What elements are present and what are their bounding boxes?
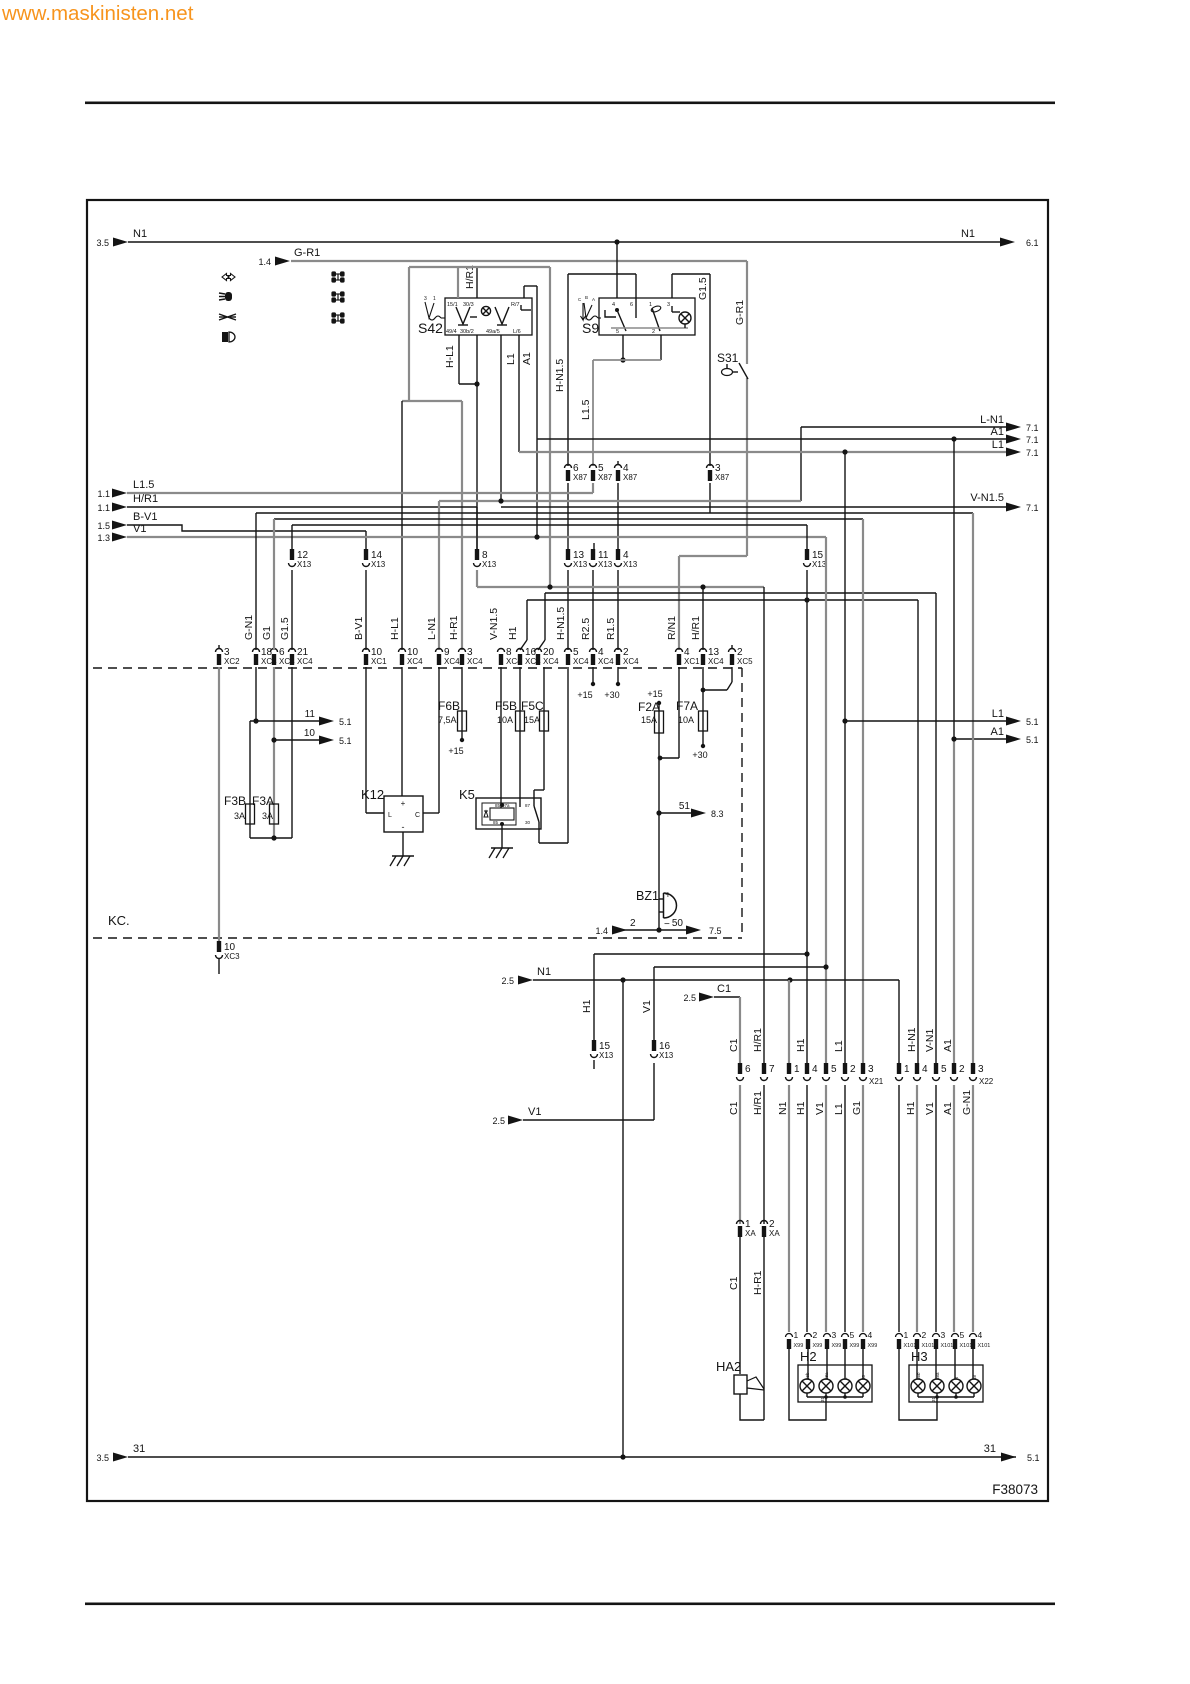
lamp cluster H2 box <box>798 1365 872 1402</box>
wire K12 right to XC4-9 <box>423 812 439 814</box>
svg-text:A1: A1 <box>942 1039 954 1052</box>
connector X22 pin 4 <box>915 1063 919 1074</box>
wire H1 lower <box>594 953 807 955</box>
wire B-V1 down to X13-14 <box>365 531 367 549</box>
svg-text:5: 5 <box>616 329 619 335</box>
wire X22-5 to X101-3 <box>935 1085 937 1332</box>
svg-text:85: 85 <box>495 803 501 808</box>
connector X101 pins <box>896 1334 903 1337</box>
svg-text:L-N1: L-N1 <box>426 617 438 640</box>
connector XC1 pin 4 <box>676 649 683 653</box>
svg-text:X87: X87 <box>623 473 638 482</box>
svg-text:7.1: 7.1 <box>1026 435 1039 445</box>
junction S42 branch <box>474 381 479 386</box>
svg-text:N1: N1 <box>777 1101 789 1115</box>
switch S31 symbol <box>722 369 733 376</box>
svg-text:XA: XA <box>769 1229 780 1238</box>
svg-text:3A: 3A <box>262 811 273 821</box>
connector XC3 pin 10 <box>217 941 221 952</box>
svg-text:L1.5: L1.5 <box>133 479 154 491</box>
svg-text:5.1: 5.1 <box>339 736 352 746</box>
wire L-N1 branch horizontal <box>439 500 801 502</box>
svg-text:2.5: 2.5 <box>492 1116 505 1126</box>
switch S9 contacts <box>605 310 616 317</box>
wire C1 to HA2 <box>739 1237 741 1374</box>
svg-text:H3: H3 <box>911 1349 928 1364</box>
svg-text:X87: X87 <box>715 473 730 482</box>
svg-text:2.5: 2.5 <box>683 993 696 1003</box>
svg-text:X13: X13 <box>371 560 386 569</box>
svg-text:−: − <box>664 919 670 930</box>
wire X22-3 to X101-4 <box>972 1085 974 1332</box>
svg-text:C1: C1 <box>717 983 731 995</box>
wire X87-4 lower column R1.5 <box>617 483 619 549</box>
connector X13 pin 4 <box>616 549 620 560</box>
svg-text:4: 4 <box>922 1064 928 1075</box>
bottom rule <box>85 1603 1055 1606</box>
svg-text:X101: X101 <box>941 1343 954 1349</box>
connector X21 pin 2 <box>843 1063 847 1074</box>
connector XC4 pin 5 <box>565 649 572 653</box>
svg-text:H/R1: H/R1 <box>133 493 158 505</box>
wire H17 line <box>545 592 936 594</box>
svg-text:XC5: XC5 <box>737 657 753 666</box>
wire X22-2 to X101-5 <box>953 1085 955 1332</box>
svg-text:K12: K12 <box>361 787 384 802</box>
svg-text:2: 2 <box>630 918 636 929</box>
wire H3 return U <box>899 1349 937 1420</box>
connector XC4 pin 9 <box>436 649 443 653</box>
wire A1 column <box>953 439 955 739</box>
svg-text:KC.: KC. <box>108 913 130 928</box>
wire G1.5 line <box>292 524 807 526</box>
svg-text:C1: C1 <box>728 1038 740 1052</box>
junction H29 H1 <box>804 951 809 956</box>
wire F3 bottom bus <box>250 837 292 839</box>
relay K5 coil feed dots <box>500 803 504 807</box>
svg-text:G-N1: G-N1 <box>961 1090 973 1115</box>
wire N1 corner to X22-1 <box>898 980 900 1063</box>
wire X13-15 column <box>806 525 808 549</box>
junction N1/S9 <box>614 239 619 244</box>
wire G1 column <box>862 519 864 1063</box>
wire S42 49a/5 down to H7 junction <box>500 335 502 501</box>
lamp cluster H3 bus <box>917 1393 919 1397</box>
svg-text:30/3: 30/3 <box>463 302 474 308</box>
svg-text:5: 5 <box>850 1330 855 1340</box>
junction V1/A1 <box>534 534 539 539</box>
connector X22 pin 5 <box>934 1063 938 1074</box>
connector X21 pin 1 <box>787 1063 791 1074</box>
svg-text:N1: N1 <box>961 228 975 240</box>
svg-text:1: 1 <box>904 1064 910 1075</box>
wire A1 column from R/7 <box>536 286 538 537</box>
svg-text:XC4: XC4 <box>598 657 614 666</box>
svg-text:X87: X87 <box>598 473 613 482</box>
wire BZ1 stem <box>658 894 660 930</box>
svg-text:3A: 3A <box>234 811 245 821</box>
wire H18 line <box>527 599 918 601</box>
svg-text:X13: X13 <box>573 560 588 569</box>
svg-text:B-V1: B-V1 <box>353 616 365 640</box>
svg-text:51: 51 <box>679 801 691 812</box>
svg-text:V1: V1 <box>528 1106 541 1118</box>
wire S42 pin 30b/2 down to X13-8 <box>476 335 478 549</box>
svg-text:2: 2 <box>850 1064 856 1075</box>
svg-text:+30: +30 <box>604 690 619 700</box>
wire A1 to 5.1 <box>954 738 1007 740</box>
svg-text:1: 1 <box>433 296 436 302</box>
relay K5 inner module <box>482 803 516 825</box>
wire 18 column down <box>255 667 257 721</box>
svg-text:F38073: F38073 <box>992 1482 1038 1497</box>
wire gray H16 horn feed <box>476 570 478 587</box>
svg-text:V1: V1 <box>641 1000 653 1013</box>
svg-text:L1: L1 <box>505 353 517 365</box>
junction H16 gray <box>547 584 552 589</box>
svg-text:1.4: 1.4 <box>595 926 608 936</box>
svg-text:H1: H1 <box>795 1101 807 1115</box>
svg-text:G1: G1 <box>261 626 273 640</box>
svg-text:4: 4 <box>612 302 615 308</box>
svg-text:2: 2 <box>652 329 655 335</box>
svg-text:10A: 10A <box>497 715 513 725</box>
wire C1 column <box>739 1085 741 1224</box>
svg-text:H-L1: H-L1 <box>444 345 456 368</box>
svg-text:N1: N1 <box>537 966 551 978</box>
connector XC4 pin 10 <box>399 649 406 653</box>
svg-text:1: 1 <box>794 1064 800 1075</box>
wire K5 30 out to XC4-5 <box>538 822 540 843</box>
svg-text:31: 31 <box>133 1443 145 1455</box>
connector XA pin 1 <box>737 1221 744 1225</box>
junction L1 column <box>842 449 847 454</box>
svg-text:3: 3 <box>868 1064 874 1075</box>
svg-text:L: L <box>388 812 392 819</box>
junction 51 <box>656 810 661 815</box>
relay K5 contact <box>534 806 539 822</box>
wire G1 X21-3 to X99-4 <box>862 1085 864 1332</box>
wire +30 stub XC4-2 <box>617 667 619 684</box>
svg-text:X13: X13 <box>599 1051 614 1060</box>
wire V1 X21-5 to X99-3 <box>825 1085 827 1332</box>
wire L-N1 branch to XC4-9 <box>438 501 440 650</box>
junction V1 lower <box>823 964 828 969</box>
svg-text:H/R1: H/R1 <box>752 1091 764 1115</box>
junction N1 X22 <box>787 977 792 982</box>
wire V1 column <box>825 537 827 1063</box>
svg-text:7,5A: 7,5A <box>438 715 457 725</box>
svg-text:7.1: 7.1 <box>1026 423 1039 433</box>
wire G1 to XC4-6 <box>273 519 275 650</box>
svg-text:X87: X87 <box>573 473 588 482</box>
svg-text:30b/2: 30b/2 <box>460 329 474 335</box>
svg-text:C: C <box>415 812 420 819</box>
svg-text:2.5: 2.5 <box>501 976 514 986</box>
svg-text:B-V1: B-V1 <box>133 511 157 523</box>
connector X21 pin 5 <box>824 1063 828 1074</box>
svg-text:3: 3 <box>832 1330 837 1340</box>
svg-text:A: A <box>592 297 595 302</box>
svg-text:X99: X99 <box>868 1343 878 1349</box>
KC unit dashed boundary <box>93 667 742 669</box>
svg-text:5.1: 5.1 <box>339 717 352 727</box>
svg-text:H/R1: H/R1 <box>464 265 476 289</box>
svg-text:X13: X13 <box>598 560 613 569</box>
switch S42 box <box>445 298 532 335</box>
svg-text:5: 5 <box>831 1064 837 1075</box>
svg-text:15A: 15A <box>524 715 540 725</box>
svg-text:H-N1.5: H-N1.5 <box>554 359 566 392</box>
svg-text:+15: +15 <box>647 689 662 699</box>
svg-text:N1: N1 <box>133 228 147 240</box>
svg-text:L1: L1 <box>833 1040 845 1052</box>
svg-text:F3A: F3A <box>252 794 274 808</box>
svg-text:V1: V1 <box>133 523 146 535</box>
svg-text:1.3: 1.3 <box>97 533 110 543</box>
wire H/R1 column lower <box>763 587 765 1063</box>
indicator icon turn signals <box>222 274 235 281</box>
svg-text:7: 7 <box>769 1064 775 1075</box>
svg-text:G1.5: G1.5 <box>697 277 709 300</box>
connector X22 pin 3 <box>971 1063 975 1074</box>
connector X87 pin 5 <box>590 465 597 468</box>
wire H/R1 column X13-8 <box>476 507 478 549</box>
connector XC4 pin 13 <box>700 649 707 653</box>
svg-text:H-R1: H-R1 <box>448 615 460 640</box>
indicator icon high beam <box>219 292 232 301</box>
svg-text:X13: X13 <box>297 560 312 569</box>
svg-text:V-N1.5: V-N1.5 <box>488 608 500 640</box>
svg-text:2: 2 <box>922 1330 927 1340</box>
connector X87 pin 3 <box>707 465 714 468</box>
wire K5 ground stem <box>501 824 503 848</box>
wire H-N1.5 hat to S9 pin6 <box>568 273 636 275</box>
wire G1.5 column <box>291 525 293 549</box>
wire H17 diagonal to XC4-20 <box>544 593 546 640</box>
connector X13 pin 13 <box>566 549 570 560</box>
wire H1 X21-4 to X99-2 <box>806 1085 808 1332</box>
switch S9 internal bus <box>611 327 688 329</box>
junction L1 5.1 <box>842 718 847 723</box>
svg-text:1.1: 1.1 <box>97 489 110 499</box>
svg-text:6.1: 6.1 <box>1026 238 1039 248</box>
svg-text:XC3: XC3 <box>224 952 240 961</box>
wire G-N1 to XC4-18 <box>255 513 257 650</box>
svg-text:X13: X13 <box>482 560 497 569</box>
svg-text:H-N1: H-N1 <box>906 1027 918 1052</box>
svg-text:2: 2 <box>959 1064 965 1075</box>
wire G-N1 line <box>256 512 973 514</box>
wire X22-1 to X101-1 <box>898 1085 900 1332</box>
svg-text:HA2: HA2 <box>716 1359 741 1374</box>
svg-text:4: 4 <box>868 1330 873 1340</box>
svg-text:X99: X99 <box>850 1343 860 1349</box>
svg-text:87: 87 <box>525 803 531 808</box>
svg-text:1: 1 <box>794 1330 799 1340</box>
wire L1.5 to X87-5 <box>592 360 594 466</box>
svg-text:11: 11 <box>305 709 316 720</box>
connector XC4 pin 3 <box>459 649 466 653</box>
ground K12 <box>392 855 414 857</box>
svg-text:-: - <box>402 822 405 832</box>
svg-text:3: 3 <box>978 1064 984 1075</box>
svg-text:1.5: 1.5 <box>97 521 110 531</box>
svg-text:G-R1: G-R1 <box>294 247 320 259</box>
top rule <box>85 102 1055 105</box>
wire S42 R/7 hat to A1 column <box>520 305 522 310</box>
svg-text:31: 31 <box>984 1443 996 1455</box>
connector X21 pin 6 <box>738 1063 742 1074</box>
connector X99 pins <box>786 1334 793 1337</box>
indicator icon parking light <box>222 332 235 342</box>
connector X87 pin 4 <box>615 465 622 468</box>
svg-text:G1.5: G1.5 <box>279 617 291 640</box>
svg-text:H/R1: H/R1 <box>690 616 702 640</box>
svg-text:50: 50 <box>672 918 684 929</box>
wire L1 to 5.1 <box>845 720 1007 722</box>
connector X22 pin 2 <box>952 1063 956 1074</box>
svg-text:S9: S9 <box>582 320 599 336</box>
svg-text:X13: X13 <box>659 1051 674 1060</box>
svg-text:H-L1: H-L1 <box>389 617 401 640</box>
connector XC4 pin 18 <box>253 649 260 653</box>
wire L1 column <box>844 452 846 1063</box>
wire N1 X21-1 to X99-1 <box>788 980 790 1063</box>
wire H18 diagonal to XC4-16 <box>526 600 528 640</box>
wire F3B branch <box>249 721 251 838</box>
svg-text:L1: L1 <box>992 708 1004 720</box>
svg-text:G1: G1 <box>851 1101 863 1115</box>
svg-text:3.5: 3.5 <box>96 238 109 248</box>
wire S9 pin5 down <box>622 335 624 360</box>
wire R2.5 column to XC4-4 <box>592 570 594 650</box>
connector X13 pin 15 lower <box>592 1040 596 1051</box>
wire S9 pin3 hat to X87-3 column <box>671 274 673 298</box>
svg-text:V1: V1 <box>924 1102 936 1115</box>
svg-text:XC4: XC4 <box>543 657 559 666</box>
indicator icon fog/flasher <box>219 314 236 320</box>
wire V1 lower <box>654 966 826 968</box>
junction F7A top <box>701 688 706 693</box>
svg-text:A1: A1 <box>991 726 1004 738</box>
wire X22-4 to X101-2 <box>916 1085 918 1332</box>
wire R/N1 column to F2A net <box>678 667 680 758</box>
junction H18 X13-15 <box>804 597 809 602</box>
connector X13 pin 15 <box>805 549 809 560</box>
junction F2A/RN1 <box>658 756 663 761</box>
wire XC5-2 to F7A <box>731 667 733 682</box>
lamp cluster H3 box <box>909 1365 983 1402</box>
wire V1 column to X13-16 lower <box>653 967 655 1040</box>
switch S9 lever symbol <box>581 303 602 320</box>
svg-text:2: 2 <box>813 1330 818 1340</box>
connector X13 pin 12 <box>290 549 294 560</box>
svg-text:X13: X13 <box>623 560 638 569</box>
connector X21 pin 3 <box>861 1063 865 1074</box>
switch S9 lamp <box>679 312 691 324</box>
wire H-R1 to HA2 <box>763 1237 765 1420</box>
switch S42 contacts <box>456 307 470 324</box>
wire H-N1 column <box>917 600 919 1063</box>
wire H-R1 from hat to XC4-3 <box>402 400 462 402</box>
svg-text:S42: S42 <box>418 320 443 336</box>
wire G-N1 column <box>972 513 974 1063</box>
connector X22 pin 1 <box>897 1063 901 1074</box>
svg-text:A1: A1 <box>942 1102 954 1115</box>
connector XC4 pin 20 <box>535 649 542 653</box>
stub above X13-11 <box>593 543 595 549</box>
wire H/R1 into S42 <box>476 267 478 298</box>
wire H-N1.5 column to XC4-5 <box>567 570 569 650</box>
svg-text:5.1: 5.1 <box>1027 1453 1040 1463</box>
wire R1.5 column to XC4-2 <box>617 570 619 650</box>
wire V-N1 column <box>935 593 937 1063</box>
wire G-R1 vertical <box>746 261 748 364</box>
svg-text:C1: C1 <box>728 1276 740 1290</box>
svg-text:F6B: F6B <box>438 699 460 713</box>
wire H/R1 XC4-13 column <box>702 587 704 650</box>
wire L1 from S42 <box>518 335 520 452</box>
svg-text:49/4: 49/4 <box>446 329 457 335</box>
svg-text:3: 3 <box>424 296 427 302</box>
svg-text:3.5: 3.5 <box>96 1453 109 1463</box>
svg-text:XC4: XC4 <box>708 657 724 666</box>
junction A1 5.1 <box>951 736 956 741</box>
junction S9 L1.5 bus <box>620 357 625 362</box>
svg-text:L1.5: L1.5 <box>580 399 592 420</box>
svg-text:F2A: F2A <box>638 700 660 714</box>
wire H3 lamp feeds <box>916 1349 918 1379</box>
svg-text:F5B: F5B <box>495 699 517 713</box>
horn HA2 symbol <box>734 1375 747 1394</box>
svg-text:X99: X99 <box>832 1343 842 1349</box>
wire L-N1 vertical <box>800 427 802 501</box>
svg-text:A1: A1 <box>521 352 533 365</box>
svg-text:5: 5 <box>941 1064 947 1075</box>
svg-text:V1: V1 <box>814 1102 826 1115</box>
wire B-V1 column to XC1-10 <box>365 570 367 650</box>
connector XC4 pin 8 <box>498 649 505 653</box>
connector XC4 pin 4 <box>590 649 597 653</box>
svg-text:+15: +15 <box>577 690 592 700</box>
connector XC2 pin 3 <box>216 649 223 653</box>
connector X13 pin 16 lower <box>652 1040 656 1051</box>
connector X21 pin 7 <box>762 1063 766 1074</box>
connector X13 pin 8 <box>475 549 479 560</box>
svg-text:XC4: XC4 <box>407 657 423 666</box>
wire G1 line <box>274 518 863 520</box>
junction N1 long drop <box>620 977 625 982</box>
wire H2 lamp feeds <box>807 1349 809 1379</box>
svg-text:XC4: XC4 <box>297 657 313 666</box>
svg-text:7.5: 7.5 <box>709 926 722 936</box>
svg-text:10A: 10A <box>678 715 694 725</box>
svg-text:4: 4 <box>978 1330 983 1340</box>
switch S42 indicator lamp <box>481 306 490 315</box>
relay K12 box <box>384 796 423 832</box>
wire K5 87 from F5C <box>534 789 544 791</box>
wire S42 gray hat <box>409 266 550 268</box>
svg-text:10: 10 <box>304 728 316 739</box>
svg-text:30: 30 <box>525 820 531 825</box>
svg-text:3: 3 <box>941 1330 946 1340</box>
svg-text:V-N1: V-N1 <box>924 1028 936 1052</box>
svg-text:H-R1: H-R1 <box>752 1270 764 1295</box>
svg-text:XC4: XC4 <box>623 657 639 666</box>
svg-text:1.4: 1.4 <box>258 257 271 267</box>
wire XC2-3 column <box>218 667 220 941</box>
